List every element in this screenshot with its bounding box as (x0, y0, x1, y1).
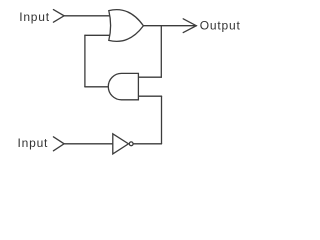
svg-text:Input: Input (19, 10, 50, 24)
svg-text:Output: Output (200, 18, 241, 32)
svg-text:Input: Input (18, 136, 49, 150)
